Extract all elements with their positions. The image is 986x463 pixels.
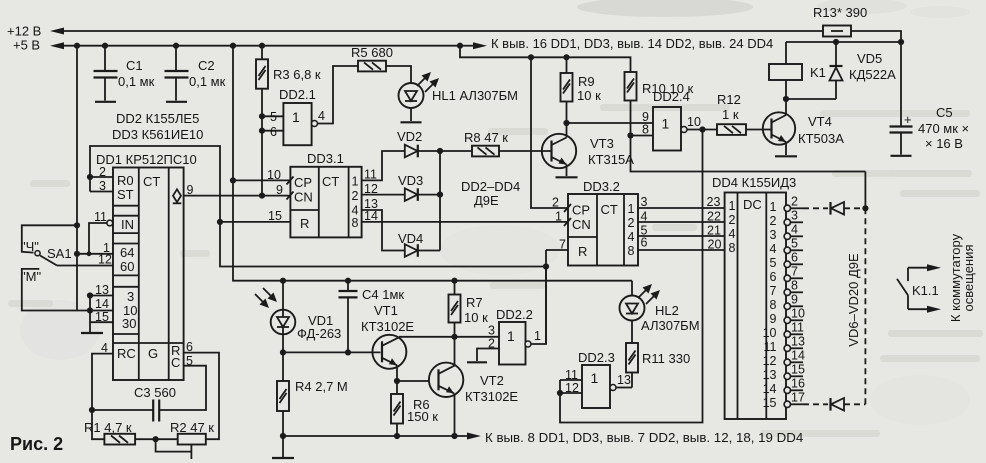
svg-text:К выв. 16 DD1, DD3, выв. 14 DD: К выв. 16 DD1, DD3, выв. 14 DD2, выв. 24… (491, 36, 773, 51)
svg-text:ФД-263: ФД-263 (297, 326, 341, 341)
svg-text:R3 6,8 к: R3 6,8 к (273, 67, 321, 82)
svg-text:21: 21 (707, 224, 721, 238)
svg-text:11: 11 (764, 340, 777, 354)
svg-text:R9: R9 (578, 74, 595, 89)
VT2 emitter to ground rail (454, 393, 456, 436)
node +5V / x233 branch (230, 43, 236, 49)
svg-text:12: 12 (98, 253, 112, 267)
svg-text:1 к: 1 к (722, 107, 739, 122)
svg-text:1: 1 (292, 109, 300, 125)
LED HL2 АЛ307БМ (631, 281, 633, 296)
svg-text:14: 14 (763, 382, 777, 396)
svg-text:DD3.2: DD3.2 (583, 179, 620, 194)
svg-text:CT: CT (601, 202, 618, 217)
node pin6 (259, 128, 265, 134)
svg-text:освещения: освещения (961, 245, 976, 312)
svg-text:13: 13 (617, 373, 631, 387)
out pin 11 wire to VD2 (362, 151, 405, 180)
svg-text:DD2 К155ЛЕ5: DD2 К155ЛЕ5 (116, 111, 199, 126)
chip DD1 КР512ПС10 (113, 168, 184, 381)
svg-text:8: 8 (729, 241, 736, 255)
svg-text:14: 14 (791, 348, 805, 362)
svg-text:23: 23 (707, 195, 721, 209)
svg-text:6: 6 (791, 250, 798, 264)
svg-text:7: 7 (559, 238, 566, 252)
VT1 collector wire to R7 node (399, 336, 455, 338)
pin 5 wire to C3 right (159, 366, 206, 410)
svg-text:8: 8 (628, 244, 635, 258)
diode VD5 КД522А (835, 42, 837, 66)
capacitor C1 (104, 46, 106, 71)
svg-text:КД522А: КД522А (849, 67, 896, 82)
svg-text:9: 9 (791, 292, 798, 306)
wire R10 down to pin8 and y171 bus (631, 101, 866, 172)
svg-text:DD2.1: DD2.1 (279, 87, 316, 102)
svg-text:13: 13 (791, 334, 805, 348)
wire collector to DD2.4 pin 9 (567, 122, 654, 124)
ground (DD1 pins) (81, 332, 103, 334)
svg-text:11: 11 (364, 168, 377, 182)
DD2.3 inputs 11,12 (560, 379, 582, 381)
node R9 top (563, 54, 569, 60)
svg-text:6: 6 (270, 125, 277, 139)
R2 tap wire (156, 439, 192, 451)
svg-text:+5 В: +5 В (13, 38, 40, 53)
svg-text:КТ315А: КТ315А (588, 152, 634, 167)
svg-text:R: R (300, 216, 309, 231)
svg-text:30: 30 (122, 316, 136, 331)
svg-text:C2: C2 (198, 58, 215, 73)
svg-text:CN: CN (294, 190, 313, 205)
svg-text:× 16 В: × 16 В (925, 136, 963, 151)
svg-text:DD3.1: DD3.1 (307, 151, 344, 166)
svg-text:1: 1 (507, 328, 515, 344)
wire DD2.2 out up to R net (531, 267, 546, 345)
pin 7 R wire (546, 249, 568, 251)
svg-text:1: 1 (628, 202, 635, 216)
node VT3 collector / R9 (563, 120, 569, 126)
capacitor C2 (175, 46, 177, 71)
svg-text:2: 2 (99, 165, 106, 179)
node ground rail left (280, 433, 286, 439)
svg-text:1: 1 (555, 210, 562, 224)
wire base line (283, 351, 381, 353)
svg-text:1: 1 (729, 199, 736, 213)
svg-text:14: 14 (364, 209, 378, 223)
svg-text:9: 9 (187, 183, 194, 197)
svg-text:SA1: SA1 (47, 246, 72, 261)
pin 1 (77, 253, 113, 255)
svg-text:4: 4 (641, 210, 648, 224)
resistor R3 (261, 46, 263, 60)
svg-text:VT3: VT3 (590, 136, 614, 151)
svg-text:VT4: VT4 (808, 114, 832, 129)
pin 2 (90, 176, 113, 178)
transistor VT3 КТ315А (542, 134, 576, 168)
wire x233 down to +5V branch corner (233, 46, 632, 281)
pin 11 (IN) (107, 220, 113, 226)
wire x77 down to DD1 pin1 (76, 46, 78, 311)
svg-text:2: 2 (552, 196, 559, 210)
wire DD2.3 out to R11 (616, 387, 632, 389)
svg-text:CP: CP (294, 175, 312, 190)
svg-text:C1: C1 (126, 58, 143, 73)
node VD1/R4/base (280, 349, 286, 355)
svg-text:20: 20 (708, 238, 722, 252)
svg-text:6: 6 (641, 236, 648, 250)
wire R7 node to DD2.2 pin3 (455, 336, 500, 338)
svg-text:6: 6 (770, 270, 777, 284)
pin 9 CN wire from DD1 out 9 (184, 195, 291, 197)
svg-text:9: 9 (770, 312, 777, 326)
svg-text:2: 2 (352, 189, 359, 203)
svg-text:C5: C5 (936, 105, 953, 120)
svg-text:K1.1: K1.1 (912, 283, 939, 298)
svg-text:4: 4 (729, 227, 736, 241)
resistor R4 2,7M (282, 352, 284, 381)
svg-text:14: 14 (95, 297, 109, 311)
wire +5V branch to R9 R10 (460, 46, 631, 72)
node +5V / R3 (259, 43, 265, 49)
svg-text:15: 15 (763, 396, 777, 410)
svg-text:C: C (171, 355, 180, 370)
svg-text:R8 47 к: R8 47 к (464, 130, 508, 145)
wire DD2.1 out to R5 (318, 66, 359, 124)
svg-text:C4 1мк: C4 1мк (362, 287, 404, 302)
svg-text:13: 13 (95, 283, 109, 297)
ground (C5) (891, 155, 912, 157)
svg-text:10: 10 (267, 168, 281, 182)
svg-text:10 к: 10 к (464, 310, 488, 325)
node DD3.1 R line (217, 219, 223, 225)
svg-text:КТ3102Е: КТ3102Е (465, 389, 518, 404)
wire y42 to K1 and VD5 (786, 41, 901, 43)
svg-text:3: 3 (127, 289, 134, 304)
svg-text:5: 5 (770, 256, 777, 270)
svg-text:1: 1 (770, 200, 777, 214)
svg-text:8: 8 (642, 123, 649, 137)
svg-text:R2 47 к: R2 47 к (170, 420, 214, 435)
svg-text:VT2: VT2 (480, 373, 504, 388)
svg-text:1: 1 (591, 370, 599, 386)
wire VT1 emitter to VT2 base (397, 380, 429, 382)
svg-text:DD1 КР512ПС10: DD1 КР512ПС10 (96, 152, 197, 167)
svg-text:CT: CT (322, 174, 339, 189)
svg-text:Рис. 2: Рис. 2 (10, 434, 63, 454)
wire DD2.4 out to R12 (687, 129, 717, 131)
ground (C1) (95, 101, 116, 103)
svg-text:12: 12 (364, 182, 378, 196)
ground rail to arrow (283, 435, 467, 437)
svg-text:3: 3 (99, 179, 106, 193)
pin 3 (90, 191, 113, 193)
svg-text:R13* 390: R13* 390 (813, 5, 867, 20)
node DD3.2 CP drop (528, 54, 534, 60)
svg-text:R12: R12 (717, 92, 741, 107)
svg-text:+12 В: +12 В (7, 24, 41, 39)
svg-text:R0: R0 (117, 173, 134, 188)
wire out10 down to DD2.3 inputs (560, 130, 703, 423)
svg-text:4: 4 (628, 230, 635, 244)
node C3 left (89, 407, 95, 413)
svg-text:R: R (578, 244, 587, 259)
svg-text:+: + (904, 112, 912, 127)
resistor R11 330 (626, 343, 638, 373)
pin 10 CP wire (233, 179, 290, 181)
ground (rail) (282, 436, 284, 457)
resistor R7 10k (451, 278, 457, 284)
svg-text:G: G (148, 346, 158, 361)
out pin 13 wire to VD4 (362, 210, 405, 251)
node +5V K vyv arrow (457, 43, 463, 49)
svg-text:VT1: VT1 (374, 303, 398, 318)
pin 14 (90, 310, 113, 312)
svg-text:DD2.4: DD2.4 (653, 89, 690, 104)
svg-text:17: 17 (791, 390, 805, 404)
svg-text:4: 4 (791, 222, 798, 236)
svg-text:10: 10 (687, 115, 701, 129)
svg-text:K1: K1 (810, 65, 826, 80)
wire R1 to R2 (135, 438, 178, 440)
pin 13 (90, 295, 113, 297)
out pin 12 wire to VD3 (362, 194, 405, 196)
node +5V to SA1 branch (74, 43, 80, 49)
wire y171 bus corner down to diode row (864, 172, 866, 209)
node R net to DD3.2 (543, 263, 549, 269)
svg-text:4: 4 (770, 242, 777, 256)
svg-text:15: 15 (268, 209, 282, 223)
diode VD6 (803, 207, 828, 209)
svg-text:11: 11 (94, 210, 107, 224)
svg-text:VD6–VD20 Д9Е: VD6–VD20 Д9Е (846, 253, 861, 347)
svg-text:7: 7 (770, 284, 777, 298)
svg-text:13: 13 (763, 368, 777, 382)
M contact wire to pin 14 line (22, 269, 90, 311)
svg-text:22: 22 (707, 210, 721, 224)
svg-text:15: 15 (95, 310, 109, 324)
svg-text:КТ503А: КТ503А (798, 131, 844, 146)
svg-text:11: 11 (565, 368, 578, 382)
svg-text:9: 9 (276, 183, 283, 197)
svg-text:60: 60 (120, 259, 134, 274)
svg-text:10: 10 (763, 326, 777, 340)
wire to DD3.2 CP (531, 57, 568, 208)
svg-text:6: 6 (186, 340, 193, 354)
node pin5 (259, 113, 265, 119)
svg-text:DD3 К561ИЕ10: DD3 К561ИЕ10 (112, 127, 203, 142)
svg-text:R5 680: R5 680 (351, 45, 393, 60)
pin 4 wire to R1/C3 (92, 354, 113, 440)
svg-text:11: 11 (791, 320, 804, 334)
svg-text:АЛ307БМ: АЛ307БМ (641, 318, 700, 333)
svg-text:DD2–DD4: DD2–DD4 (461, 179, 520, 194)
open-drain diamond pin 9 (173, 189, 181, 202)
relay contact K1.1 (908, 267, 928, 269)
svg-text:R7: R7 (466, 295, 483, 310)
svg-text:4: 4 (101, 341, 108, 355)
dashed bus VD6-VD20 (864, 208, 866, 404)
svg-text:10: 10 (791, 306, 805, 320)
svg-text:150 к: 150 к (407, 409, 438, 424)
svg-text:КТ3102Е: КТ3102Е (361, 319, 414, 334)
ground (C2) (166, 101, 187, 103)
capacitor C4 1mk (345, 278, 351, 284)
resistor R10 10k (625, 72, 637, 101)
svg-text:"М": "М" (21, 269, 41, 284)
pin 12 (from SA1 arm) (57, 265, 113, 267)
svg-text:DD2.2: DD2.2 (496, 307, 533, 322)
pin 15 R wire (220, 221, 290, 223)
svg-text:2: 2 (729, 213, 736, 227)
wire R3 to DD2.1 inputs and CN line (261, 89, 263, 196)
ground (VT4) (775, 155, 797, 157)
svg-text:1: 1 (534, 329, 541, 343)
wire DD1 pins2,3 reset bracket (90, 146, 546, 267)
svg-text:DD4 К155ИД3: DD4 К155ИД3 (712, 175, 796, 190)
ground (VT3) (556, 176, 578, 178)
svg-text:2: 2 (628, 216, 635, 230)
diode bus VD2-VD4 to R8 (439, 151, 441, 251)
svg-text:5: 5 (270, 110, 277, 124)
svg-text:К выв. 8 DD1, DD3, выв. 7 DD2,: К выв. 8 DD1, DD3, выв. 7 DD2, выв. 12, … (485, 430, 803, 445)
svg-text:15: 15 (791, 362, 805, 376)
svg-text:2: 2 (791, 194, 798, 208)
svg-text:5: 5 (186, 354, 193, 368)
svg-text:64: 64 (120, 245, 134, 260)
svg-text:DC: DC (743, 197, 762, 212)
transistor VT4 КТ503А (763, 112, 795, 144)
node CN line (259, 193, 265, 199)
wire pins13-15 to ground (89, 296, 91, 333)
svg-text:470 мк ×: 470 мк × (918, 121, 969, 136)
resistor R9 10k (566, 57, 568, 73)
svg-text:HL2: HL2 (655, 303, 679, 318)
svg-text:2: 2 (770, 214, 777, 228)
out pin 14 long wire to DD3.2 CN (362, 221, 568, 223)
svg-text:8: 8 (352, 216, 359, 230)
svg-text:3: 3 (791, 208, 798, 222)
svg-text:Д9Е: Д9Е (474, 193, 499, 208)
relay coil K1 (785, 42, 787, 64)
svg-text:12: 12 (565, 381, 579, 395)
pin 6 wire to R2 right (184, 353, 219, 440)
svg-text:3: 3 (641, 195, 648, 209)
pin 15 (90, 321, 113, 323)
svg-text:3: 3 (488, 324, 495, 338)
svg-text:VD3: VD3 (398, 173, 423, 188)
wire R5 to HL1 (386, 66, 411, 83)
svg-text:12: 12 (763, 354, 777, 368)
wire R13 to C5 top (851, 31, 901, 126)
svg-text:DD2.3: DD2.3 (578, 350, 615, 365)
svg-text:VD4: VD4 (398, 231, 423, 246)
svg-text:CT: CT (143, 174, 160, 189)
diode VD20 (803, 403, 828, 405)
svg-text:RC: RC (117, 346, 136, 361)
resistor R6 150k (396, 381, 398, 394)
VT1 emitter wire (396, 365, 398, 381)
svg-text:1: 1 (662, 116, 670, 132)
DD3.2 outputs to DD4 (638, 207, 725, 209)
svg-text:C3 560: C3 560 (134, 385, 176, 400)
svg-text:8: 8 (770, 298, 777, 312)
svg-text:5: 5 (791, 236, 798, 250)
svg-text:HL1 АЛ307БМ: HL1 АЛ307БМ (432, 88, 518, 103)
node y42 (898, 39, 904, 45)
svg-text:R11 330: R11 330 (642, 351, 690, 366)
svg-text:CN: CN (572, 217, 591, 232)
svg-text:1: 1 (352, 175, 359, 189)
svg-text:8: 8 (791, 278, 798, 292)
node pin2 (87, 174, 93, 180)
svg-text:R1 4,7 к: R1 4,7 к (84, 420, 132, 435)
svg-text:CP: CP (572, 203, 590, 218)
photodiode VD1 ФД-263 (280, 278, 286, 284)
VT2 collector to R7 node (454, 337, 456, 366)
transistor VT2 КТ3102Е (429, 363, 463, 397)
svg-text:7: 7 (791, 264, 798, 278)
svg-text:VD5: VD5 (857, 51, 882, 66)
svg-text:ST: ST (117, 187, 134, 202)
DD2.2 pin2 to ground (477, 349, 499, 362)
svg-text:0,1 мк: 0,1 мк (118, 74, 155, 89)
LED HL1 АЛ307БМ (399, 83, 424, 108)
ground (HL1) (401, 121, 422, 123)
svg-text:IN: IN (121, 217, 134, 232)
svg-text:10 к: 10 к (577, 88, 601, 103)
svg-text:3: 3 (770, 228, 777, 242)
svg-text:0,1 мк: 0,1 мк (189, 74, 226, 89)
MAIN (filled by sections below) (7, 24, 823, 311)
svg-text:4: 4 (318, 109, 325, 123)
wire K1/VD5 bottom to VT4 collector (786, 98, 836, 100)
svg-text:R4 2,7 М: R4 2,7 М (295, 379, 348, 394)
svg-text:16: 16 (791, 376, 805, 390)
svg-text:VD2: VD2 (397, 129, 422, 144)
SA1 arm (40, 256, 57, 266)
